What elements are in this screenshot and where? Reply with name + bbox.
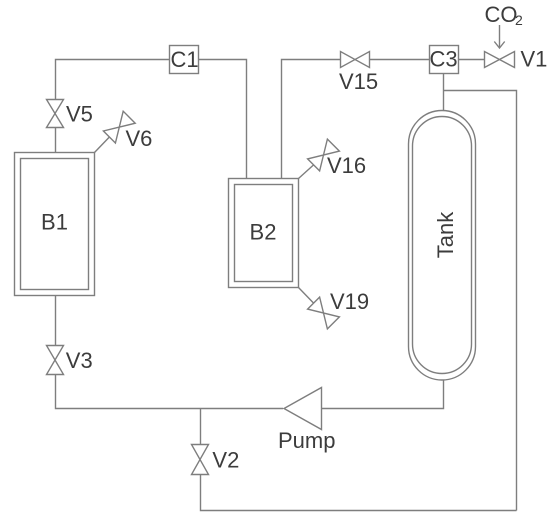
vessel B1 [15,153,95,296]
svg-text:V6: V6 [126,126,153,151]
wire junction to right-side return [444,91,517,511]
wire C1 to B2 top [199,60,247,179]
wire tank top to C3 [443,74,445,111]
valve V6 [95,111,153,152]
svg-text:2: 2 [515,12,523,28]
wire B2 top to V15 [282,60,341,179]
svg-text:C3: C3 [429,47,457,72]
wire pump to tank bottom [322,380,444,409]
svg-text:Pump: Pump [278,428,335,453]
svg-text:V5: V5 [66,102,93,127]
svg-text:CO: CO [485,2,518,27]
arrow CO2 to V1 [494,25,504,48]
svg-text:V15: V15 [339,69,378,94]
tank [409,111,476,381]
wire V15 to C3 [370,59,430,61]
valve V16 [299,139,367,178]
valve V1 [485,47,548,72]
svg-text:V19: V19 [330,289,369,314]
svg-text:V3: V3 [66,348,93,373]
wire top-left horizontal to C1 [56,60,170,101]
wire bottom return [201,475,517,511]
box C3 [429,46,458,74]
valve V15 [339,52,378,95]
CO2 source label [485,2,524,28]
wire V5 to B1 [55,128,57,153]
svg-text:B1: B1 [41,210,68,235]
svg-text:V2: V2 [212,448,239,473]
wire V2 to bottom line junction [200,409,202,445]
wire C3 to V1 [459,59,485,61]
wire B1 to V3 [55,296,57,346]
box C1 [170,46,199,74]
pump P1 [278,388,335,454]
valve V19 [299,288,370,329]
svg-text:V16: V16 [327,153,366,178]
valve V2 [192,445,240,475]
wire V3 to pump [56,375,284,409]
svg-text:B2: B2 [250,220,277,245]
vessel B2 [229,179,299,288]
valve V3 [47,346,93,375]
svg-text:Tank: Tank [433,211,458,258]
valve V5 [47,100,93,128]
svg-text:C1: C1 [170,47,198,72]
svg-text:V1: V1 [521,47,548,72]
